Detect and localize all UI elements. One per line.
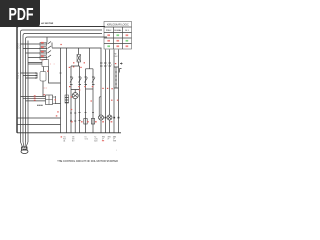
wire: LP1 down (74, 99, 76, 133)
svg-text:O/L: O/L (63, 137, 66, 139)
wire: left phase vertical N (27, 41, 29, 143)
output bracket (53, 96, 56, 104)
wire: top bus line 3 (25, 33, 102, 35)
svg-text:K1: K1 (85, 137, 87, 139)
wire: OL out to riser (56, 103, 61, 105)
wire: double control wire (28, 63, 42, 65)
wire: left branch leg (60, 48, 62, 133)
table: revision table outer (104, 22, 132, 50)
red dots beside F5 (73, 62, 74, 63)
svg-text:AC MOTOR: AC MOTOR (41, 22, 53, 25)
svg-text:LP: LP (107, 139, 109, 141)
svg-text:L3: L3 (18, 48, 20, 50)
wire: branch header (52, 47, 102, 49)
supply clamp band (22, 147, 28, 150)
wire: U1 output down (42, 81, 44, 97)
wire: fuse collector vertical (51, 43, 53, 48)
tick right of timer (120, 63, 123, 65)
svg-text:PREC: PREC (106, 30, 112, 32)
svg-text:RED: RED (102, 137, 106, 139)
wire: indicator branch 1 (100, 48, 102, 133)
terminal dots row (37, 105, 38, 106)
red dot above rail A (56, 115, 58, 116)
wire: left phase vertical L2 (23, 34, 25, 143)
lamp LP1 (circle) (72, 93, 78, 99)
heater element R1 (65, 95, 69, 103)
wire: timer branch right (118, 50, 120, 133)
wire: pushbutton branch PB1 (70, 66, 72, 133)
wire: left phase vertical L1 (21, 30, 23, 142)
wire: top bus line 2 (23, 29, 103, 31)
svg-text:10 5: 10 5 (125, 30, 130, 32)
wire: right pair bottom closure (86, 88, 94, 90)
lamp LP3 (107, 115, 112, 120)
svg-text:K2: K2 (94, 137, 96, 139)
fuse F2 (40, 47, 47, 51)
fuse F3 (40, 52, 47, 56)
svg-text:GRN: GRN (107, 137, 110, 139)
wire: arrow lead 2 (23, 75, 37, 76)
wire: lamp tap (71, 90, 80, 93)
table: row lines (104, 27, 132, 44)
svg-text:SIGNAL: SIGNAL (114, 29, 122, 32)
svg-text:RLY: RLY (63, 139, 66, 141)
contact PB1 (70, 77, 73, 85)
wire: left rail A (17, 117, 61, 119)
wire: S1 to coil box (43, 67, 45, 72)
wire: indicator branch 2 (105, 50, 107, 133)
overload relay box OL1 (2x2 grid) (46, 95, 53, 105)
fuse F1 (40, 43, 47, 47)
timer box T1 (114, 67, 119, 88)
lamp LP2 (99, 115, 104, 120)
table: data row 2 marks (107, 40, 110, 42)
svg-text:PDF: PDF (9, 4, 34, 24)
tick on PB1 lower (70, 112, 72, 114)
wire: contactor pole 2 (23, 98, 46, 100)
tick cluster on PB1 (70, 120, 72, 123)
contact K2 (48, 46, 52, 49)
coil C1 (84, 119, 87, 125)
hook branch into LP2 (99, 97, 101, 115)
wire: contactor pole 3 (26, 100, 46, 102)
fuse F5 (77, 55, 81, 63)
svg-text:1: 1 (107, 64, 108, 66)
svg-text:ON: ON (72, 137, 74, 139)
table: data row 1 marks (107, 34, 110, 36)
wire: timer branch left (113, 50, 115, 133)
contact K3 (48, 51, 52, 54)
contact PB3 (85, 77, 88, 85)
wire: pushbutton branch PB2 (79, 66, 81, 133)
red dot right of U1 (47, 71, 48, 72)
contact PB2 (79, 77, 82, 85)
contact K4 (48, 55, 52, 58)
svg-text:3: 3 (111, 64, 112, 66)
svg-text:THE CONTROL CIRCUIT OF DOL MOT: THE CONTROL CIRCUIT OF DOL MOTOR STARTER (57, 160, 118, 163)
red dots row (111, 100, 112, 101)
wire: indicator branch 3 (109, 50, 111, 133)
wire: fuse row 2 (23, 48, 47, 50)
table: data row 3 marks (107, 45, 110, 47)
PDF badge (0, 0, 40, 27)
wire: fuse row 1 (21, 43, 48, 45)
table: column lines (114, 27, 123, 49)
wire: contactor pole 1 (21, 96, 46, 98)
red marks on poles (34, 95, 36, 96)
wire: branch K2 coil (92, 69, 94, 133)
svg-text:COIL: COIL (94, 139, 98, 141)
wire: bottom bus (17, 132, 121, 134)
wire: fused branch drop (78, 48, 80, 55)
wire: right pair feed (86, 48, 94, 69)
coil box U1 (40, 72, 46, 82)
wire: F5 down to pair top (71, 62, 80, 67)
svg-text:KIRLOSKAR LOGIC: KIRLOSKAR LOGIC (107, 24, 129, 27)
wire: arrow collector (36, 73, 38, 78)
wire: top bus line 4 (N) (28, 36, 108, 38)
svg-text:NO: NO (72, 140, 75, 142)
wire: branch K1 coil (85, 69, 87, 133)
red dots at pair top (69, 67, 70, 68)
svg-text:97: 97 (17, 78, 19, 80)
wire: left frame vertical (thick page edge) (16, 26, 18, 133)
red marks under lamp row (71, 121, 73, 122)
wire: S1 right side down (49, 67, 61, 84)
wire: arrow lead 1 (21, 73, 38, 74)
svg-text:xx x: xx x (44, 87, 48, 89)
wire: top bus line 1 (outer frame top) (18, 26, 105, 28)
wire: fuse row 3 (26, 52, 48, 54)
cable funnel to supply (21, 142, 29, 147)
supply cable ellipse (21, 150, 28, 154)
svg-text:230V: 230V (114, 56, 119, 58)
coil C2 (91, 119, 94, 125)
contact PB4 (92, 77, 95, 85)
node dot red above header (60, 44, 61, 45)
svg-text:SW: SW (72, 139, 75, 141)
switch box S1 (42, 60, 49, 67)
red dot under bus left (61, 136, 63, 137)
wire: left phase vertical L3 (26, 37, 28, 142)
wire: left rail B (17, 124, 61, 126)
svg-text:LP: LP (113, 139, 115, 141)
svg-text:AMB: AMB (113, 136, 116, 139)
red dot near S1 (42, 59, 44, 60)
contact K1 (48, 42, 52, 45)
svg-text:x: x (54, 63, 55, 65)
svg-text:COIL: COIL (85, 139, 89, 141)
wire: vertical branch with heater (66, 48, 68, 133)
wire: fuse feed drop from bus N (46, 37, 48, 43)
wire: arrow lead 3 (26, 78, 38, 79)
svg-text:x: x (50, 63, 51, 65)
fuse F4 (40, 56, 47, 60)
bracket right of timer box (120, 69, 122, 73)
svg-text:TMR: TMR (113, 140, 117, 142)
wire: fuse row 4 (28, 57, 47, 59)
svg-text:1: 1 (116, 150, 117, 152)
